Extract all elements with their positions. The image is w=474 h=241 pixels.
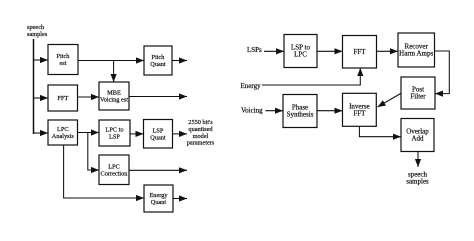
wire Energy to FFT bottom (262, 68, 363, 85)
svg-text:LPC: LPC (108, 163, 120, 170)
wire speech input trunk (33, 39, 35, 134)
wire trunk to FFT (34, 95, 49, 101)
wire Energy Quant output (173, 195, 187, 201)
wire LPC Correction output (129, 167, 187, 173)
block LSP Quant (144, 120, 173, 149)
svg-text:LPC: LPC (57, 126, 69, 133)
block Phase Synthesis (283, 95, 317, 128)
block FFT (encoder) (48, 85, 78, 111)
svg-text:LSPs: LSPs (247, 46, 262, 54)
svg-text:Voicing est: Voicing est (100, 97, 128, 104)
svg-text:est: est (60, 60, 67, 67)
label LSPs input (247, 46, 262, 54)
label 2550 bits quantised model parameters (187, 119, 215, 147)
svg-text:Quant: Quant (150, 61, 166, 68)
wire Pitch est to Pitch Quant (78, 57, 144, 63)
svg-text:Synthesis: Synthesis (287, 111, 314, 119)
wire FFT to Recover Harm Amps (377, 48, 399, 54)
svg-text:Quant: Quant (151, 199, 167, 206)
block LPC to LSP (99, 120, 130, 146)
block Inverse FFT (343, 93, 377, 126)
svg-text:FFT: FFT (353, 110, 366, 118)
wire LPC Analysis to Energy Quant (64, 145, 144, 201)
block MBE Voicing est (99, 82, 129, 110)
svg-text:Add: Add (411, 135, 424, 143)
wire Recover Harm Amps to Post Filter (435, 51, 450, 97)
wire LSP to LPC to FFT (317, 48, 343, 54)
svg-text:FFT: FFT (353, 48, 366, 56)
block Energy Quant (144, 185, 173, 212)
block Pitch est (48, 45, 78, 75)
wire Post Filter to Inverse FFT (diagonal) (378, 93, 402, 107)
block LSP to LPC (284, 35, 317, 68)
wire Pitch Quant output (172, 57, 187, 63)
svg-text:LPC to: LPC to (105, 127, 123, 134)
wire LSP Quant output (173, 131, 188, 137)
block Pitch Quant (144, 46, 172, 75)
label Energy input (241, 82, 262, 90)
block LPC Correction (99, 155, 129, 185)
block LPC Analysis (48, 120, 78, 145)
svg-text:Energy: Energy (241, 82, 262, 90)
svg-text:Pitch: Pitch (152, 54, 166, 61)
wire FFT to MBE Voicing est (78, 94, 100, 100)
wire Phase Synthesis to Inverse FFT (317, 108, 343, 114)
svg-text:parameters: parameters (187, 140, 215, 147)
svg-text:LPC: LPC (294, 51, 307, 59)
svg-text:Filter: Filter (410, 93, 426, 101)
label Voicing input (241, 107, 263, 115)
svg-text:Analysis: Analysis (52, 133, 75, 140)
wire LSPs to LSP to LPC (264, 48, 284, 54)
svg-text:Voicing: Voicing (241, 107, 263, 115)
label speech samples (output) (406, 171, 429, 186)
block Recover Harm Amps (398, 33, 435, 67)
block FFT (decoder) (343, 36, 377, 69)
wire branch to MBE Voicing est top (111, 61, 117, 83)
svg-text:samples: samples (406, 178, 429, 186)
svg-text:Harm Amps: Harm Amps (399, 50, 433, 58)
wire Voicing to Phase Synthesis (266, 108, 284, 114)
svg-text:LSP: LSP (109, 134, 120, 141)
wire trunk to LPC Analysis (34, 130, 49, 136)
wire Inverse FFT to Overlap Add (359, 126, 401, 140)
svg-text:Quant: Quant (150, 134, 166, 141)
svg-text:LSP: LSP (153, 127, 164, 134)
wire MBE Voicing est output (129, 93, 187, 99)
wire trunk to Pitch est (34, 57, 49, 63)
wire Overlap Add output down (415, 152, 421, 168)
block Overlap Add (401, 119, 434, 152)
svg-text:samples: samples (27, 31, 48, 38)
wire LPC Analysis to LPC to LSP (78, 129, 100, 135)
wire LPC to LSP to LSP Quant (130, 131, 144, 137)
svg-text:MBE: MBE (107, 90, 121, 97)
wire branch to LPC Correction (88, 133, 99, 174)
svg-text:FFT: FFT (57, 95, 68, 102)
svg-text:Pitch: Pitch (57, 53, 71, 60)
svg-text:Correction: Correction (101, 170, 129, 177)
label speech samples (input) (27, 24, 48, 38)
block Post Filter (401, 77, 435, 109)
svg-text:Energy: Energy (149, 192, 168, 199)
